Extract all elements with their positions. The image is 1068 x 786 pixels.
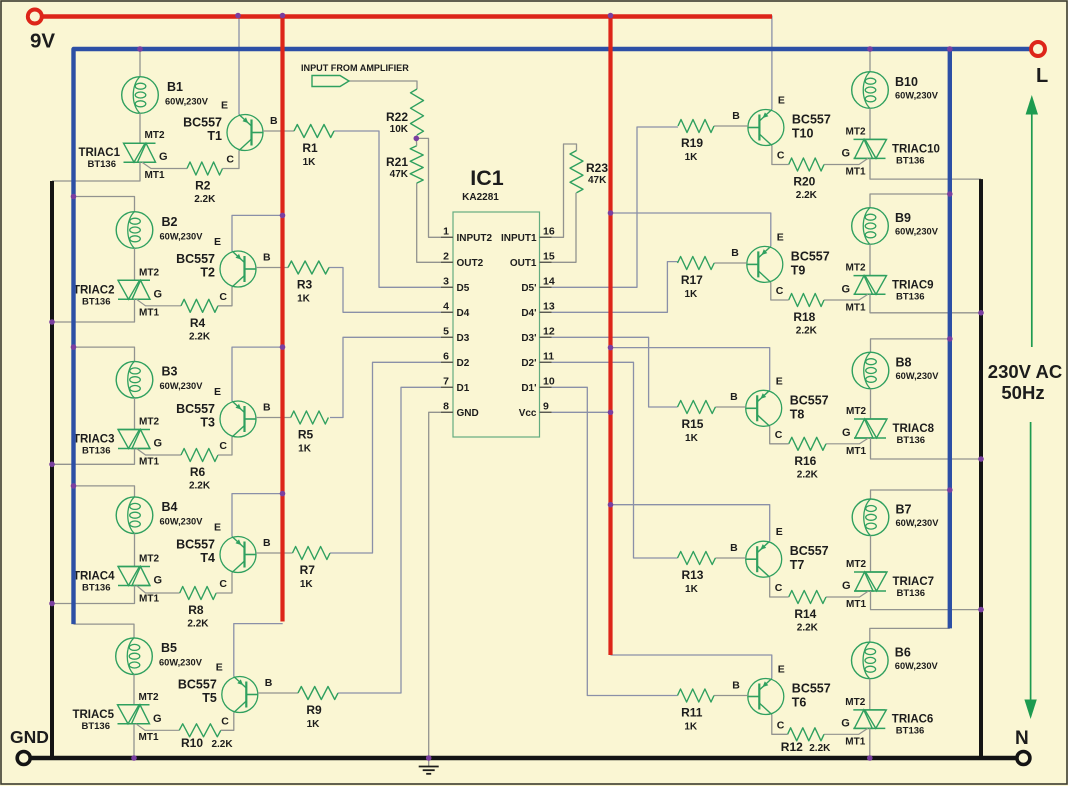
wire T4 collector to R8 [216, 573, 232, 594]
node T1 emitter [235, 13, 241, 19]
svg-text:2.2K: 2.2K [796, 190, 818, 201]
svg-text:2.2K: 2.2K [189, 481, 211, 492]
wire pin 14 (D5p) to R19 [540, 127, 679, 287]
svg-text:T8: T8 [790, 407, 805, 421]
wire T8 collector to R16 [770, 426, 789, 444]
wire T9 collector to R18 [771, 282, 789, 300]
svg-text:60W,230V: 60W,230V [896, 371, 940, 381]
svg-text:R10: R10 [181, 736, 203, 750]
resistor R13 [678, 552, 716, 565]
node T8 emitter junction [608, 345, 614, 351]
wire R21 bottom to pin 2 (OUT2) [417, 183, 453, 262]
svg-text:B7: B7 [896, 502, 912, 516]
node TRIAC8 MT1 junction [978, 456, 984, 462]
resistor R12 [788, 728, 824, 741]
node L rail branch [947, 46, 953, 52]
node TRIAC4 MT1 junction [49, 601, 55, 607]
wire T6 collector to R12 [772, 715, 788, 735]
svg-text:G: G [154, 575, 163, 587]
svg-text:2.2K: 2.2K [797, 623, 819, 634]
svg-text:D1: D1 [457, 383, 470, 394]
svg-text:5: 5 [443, 325, 449, 337]
svg-text:C: C [219, 440, 227, 452]
svg-text:T4: T4 [200, 551, 215, 565]
wire TRIAC7 MT1 to neutral bus [871, 591, 982, 610]
label B8 [896, 356, 940, 382]
label R9 [306, 703, 322, 730]
wire B4 to TRIAC4 MT2 [134, 534, 136, 567]
wire T7 base [715, 557, 745, 559]
svg-text:BT136: BT136 [897, 435, 926, 446]
node 9V rail right branch [608, 13, 614, 19]
node B1 top [137, 46, 143, 52]
transistor T5 [222, 677, 258, 713]
terminal L [1031, 42, 1045, 56]
transistor T9 [747, 246, 783, 282]
resistor R19 [678, 120, 714, 133]
svg-text:1K: 1K [685, 584, 699, 595]
label R3 [297, 278, 313, 305]
label R11 [681, 706, 703, 733]
label MT1 TRIAC1 [145, 170, 165, 181]
svg-text:R17: R17 [681, 273, 703, 287]
svg-text:B: B [732, 110, 740, 122]
resistor R17 [678, 257, 715, 270]
svg-text:10K: 10K [390, 124, 409, 135]
wire gate TRIAC1 to R2 [142, 162, 187, 168]
svg-text:8: 8 [443, 400, 449, 412]
label MT1 TRIAC2 [139, 307, 159, 318]
svg-text:E: E [214, 522, 221, 534]
svg-text:Vcc: Vcc [519, 408, 537, 419]
node B4 top [71, 483, 77, 489]
lamp B7 [852, 499, 889, 536]
terminal 9V [28, 10, 42, 24]
wire B9 to TRIAC9 MT2 [869, 244, 871, 275]
svg-text:MT2: MT2 [846, 126, 866, 137]
pin 4 IC1 [441, 300, 470, 319]
svg-text:D3: D3 [457, 333, 470, 344]
svg-text:BC557: BC557 [792, 113, 831, 127]
label T4 [176, 538, 215, 566]
pin 15 IC1 [510, 250, 555, 269]
svg-text:BC557: BC557 [183, 116, 222, 130]
node T3 emitter junction [280, 344, 286, 350]
wire TRIAC6 MT1 to neutral bus [869, 728, 871, 758]
wire TRIAC9 MT1 to neutral bus [870, 294, 981, 313]
triac TRIAC4 [118, 567, 150, 586]
svg-text:B10: B10 [895, 75, 918, 89]
svg-text:B6: B6 [895, 645, 911, 659]
svg-text:2: 2 [443, 250, 449, 262]
svg-text:1: 1 [443, 225, 449, 237]
svg-text:R9: R9 [306, 703, 322, 717]
pin 6 IC1 [441, 350, 470, 369]
svg-text:MT1: MT1 [846, 166, 866, 177]
svg-text:14: 14 [543, 275, 555, 287]
svg-text:G: G [154, 438, 163, 450]
svg-text:1K: 1K [307, 719, 321, 730]
label B T2 [263, 252, 271, 264]
label R12 [781, 740, 831, 754]
svg-text:MT2: MT2 [845, 697, 865, 708]
wire B7 to L rail [871, 490, 950, 499]
label B10 [895, 75, 939, 101]
label C T3 [219, 440, 227, 452]
label C T5 [221, 715, 229, 727]
svg-text:E: E [777, 231, 784, 243]
svg-text:1K: 1K [300, 579, 314, 590]
wire TRIAC1 MT1 to neutral bus [52, 162, 140, 181]
label T8 [790, 393, 829, 421]
label MT2 TRIAC9 [846, 263, 866, 274]
label G TRIAC9 [841, 283, 850, 295]
node TRIAC5 MT1 junction [131, 755, 137, 761]
svg-text:60W,230V: 60W,230V [165, 97, 209, 107]
svg-text:6: 6 [443, 350, 449, 362]
label TRIAC10 [892, 143, 940, 166]
triac TRIAC10 [854, 139, 887, 158]
svg-text:C: C [777, 719, 785, 731]
node T7 emitter junction [608, 502, 614, 508]
svg-text:T9: T9 [791, 263, 806, 277]
svg-text:GND: GND [10, 727, 49, 747]
wire TRIAC2 MT1 to neutral bus [52, 299, 135, 322]
resistor R20 [789, 158, 824, 171]
svg-text:C: C [776, 285, 784, 297]
wire T6 base [714, 695, 748, 697]
svg-text:2.2K: 2.2K [796, 326, 818, 337]
node 9V rail left branch [280, 13, 286, 19]
pin 12 IC1 [521, 325, 555, 344]
resistor R8 [180, 587, 217, 600]
wire B6 to TRIAC6 MT2 [869, 679, 871, 710]
label G TRIAC5 [153, 713, 162, 725]
pin 5 IC1 [441, 325, 470, 344]
svg-text:D2: D2 [457, 358, 470, 369]
svg-text:BT136: BT136 [82, 583, 111, 594]
triac TRIAC9 [854, 276, 887, 295]
svg-text:BC557: BC557 [178, 678, 217, 692]
label L [1036, 65, 1048, 87]
svg-text:E: E [778, 664, 785, 676]
svg-text:T5: T5 [202, 691, 217, 705]
svg-text:TRIAC3: TRIAC3 [73, 434, 115, 446]
svg-text:G: G [842, 580, 851, 592]
node B10 top [867, 46, 873, 52]
label B4 [160, 500, 204, 527]
connector input tag [312, 76, 349, 87]
wire T2 base [256, 267, 288, 269]
svg-text:BC557: BC557 [790, 393, 829, 407]
label C T9 [776, 285, 784, 297]
wire pin 9 (Vcc) to 9V rail [540, 411, 611, 413]
wire T9 emitter to 9V rail [611, 213, 771, 246]
wire gate TRIAC10 to R20 [824, 158, 868, 164]
wire B5 to L rail [74, 624, 135, 638]
svg-text:C: C [219, 291, 227, 303]
svg-text:BT136: BT136 [896, 155, 925, 166]
lamp B1 [122, 77, 159, 114]
svg-text:MT2: MT2 [139, 267, 159, 278]
label TRIAC2 [73, 284, 115, 307]
svg-text:R7: R7 [300, 563, 316, 577]
resistor R11 [678, 689, 715, 702]
svg-text:R6: R6 [190, 465, 206, 479]
label MT2 TRIAC6 [845, 697, 865, 708]
svg-text:3: 3 [443, 275, 449, 287]
svg-text:D4: D4 [457, 308, 470, 319]
wire pin 10 (D1p) to R11 [540, 387, 678, 695]
svg-text:INPUT1: INPUT1 [501, 233, 537, 244]
label R2 [194, 179, 216, 206]
label G TRIAC6 [841, 717, 850, 729]
svg-text:BC557: BC557 [791, 249, 830, 263]
lamp B2 [116, 212, 153, 249]
wire B9 to L rail [870, 194, 950, 208]
svg-text:2.2K: 2.2K [187, 619, 209, 630]
svg-text:7: 7 [443, 375, 449, 387]
transistor T8 [746, 390, 782, 426]
label T7 [790, 544, 829, 572]
svg-text:TRIAC6: TRIAC6 [892, 713, 934, 725]
label T2 [176, 252, 215, 280]
triac TRIAC1 [124, 143, 156, 162]
svg-text:T6: T6 [792, 696, 807, 710]
wire input tag to R22 [349, 81, 417, 89]
wire T4 emitter to 9V rail [232, 494, 283, 537]
resistor R7 [293, 547, 331, 560]
op-amp IC1 body [453, 212, 540, 437]
label MT1 TRIAC4 [139, 594, 159, 605]
svg-text:MT1: MT1 [139, 594, 159, 605]
node B9 top [947, 191, 953, 197]
svg-text:9V: 9V [30, 30, 55, 53]
svg-text:R21: R21 [386, 155, 408, 169]
resistor R23 [570, 151, 583, 193]
wire pin 12 (D3p) to R15 [540, 337, 678, 407]
svg-text:BT136: BT136 [81, 721, 110, 732]
resistor R1 [294, 125, 334, 138]
resistor R10 [179, 724, 221, 737]
node B8 top [947, 336, 953, 342]
svg-text:B: B [263, 402, 271, 414]
wire B1 to L rail [139, 49, 141, 77]
svg-text:R8: R8 [188, 603, 204, 617]
label B T7 [730, 542, 738, 554]
svg-text:1K: 1K [684, 722, 698, 733]
label MT2 TRIAC4 [139, 554, 159, 565]
pin 11 IC1 [521, 350, 554, 369]
svg-text:MT2: MT2 [846, 559, 866, 570]
svg-text:10: 10 [543, 375, 555, 387]
svg-text:B: B [265, 677, 273, 689]
node T4 emitter junction [280, 491, 286, 497]
svg-text:G: G [153, 713, 162, 725]
svg-text:13: 13 [543, 300, 555, 312]
label B T9 [731, 247, 739, 259]
node B7 top [947, 487, 953, 493]
svg-text:B4: B4 [162, 500, 178, 514]
pin 7 IC1 [441, 375, 470, 394]
svg-text:GND: GND [457, 408, 479, 419]
wire gate TRIAC7 to R14 [826, 591, 869, 597]
svg-text:2.2K: 2.2K [189, 331, 211, 342]
pin 9 IC1 [519, 400, 552, 419]
label R1 [302, 141, 318, 168]
svg-text:B: B [270, 115, 278, 127]
label 230V AC 50Hz [988, 361, 1062, 403]
wire T2 collector to R4 [218, 287, 232, 306]
svg-text:B9: B9 [895, 211, 911, 225]
triac TRIAC8 [854, 419, 887, 438]
wire B2 to TRIAC2 MT2 [134, 248, 136, 280]
svg-text:B: B [730, 542, 738, 554]
label MT2 TRIAC1 [145, 130, 165, 141]
label C T6 [777, 719, 785, 731]
svg-text:TRIAC4: TRIAC4 [73, 571, 115, 583]
svg-text:D5: D5 [457, 283, 470, 294]
resistor R16 [789, 437, 826, 450]
svg-text:1K: 1K [684, 289, 698, 300]
svg-text:INPUT2: INPUT2 [457, 233, 493, 244]
wire B7 to TRIAC7 MT2 [870, 536, 872, 572]
label T6 [792, 682, 831, 710]
label C T4 [219, 578, 227, 590]
svg-text:MT1: MT1 [846, 302, 866, 313]
svg-text:C: C [226, 154, 234, 166]
resistor R15 [678, 401, 716, 414]
label T3 [176, 402, 215, 430]
label MT1 TRIAC3 [139, 457, 159, 468]
node GND wire junction [426, 755, 432, 761]
svg-text:G: G [842, 427, 851, 439]
pin 3 IC1 [441, 275, 470, 294]
label INPUT FROM AMPLIFIER [301, 63, 409, 73]
wire gate TRIAC6 to R12 [824, 728, 868, 734]
wire T3 base [256, 417, 291, 419]
label MT1 TRIAC7 [846, 599, 866, 610]
pin 13 IC1 [521, 300, 555, 319]
svg-text:BT136: BT136 [896, 725, 925, 736]
svg-text:E: E [214, 386, 221, 398]
svg-text:C: C [775, 429, 783, 441]
svg-text:D4': D4' [521, 308, 536, 319]
svg-text:47K: 47K [390, 169, 409, 180]
resistor R2 [187, 162, 223, 175]
svg-text:MT1: MT1 [145, 170, 165, 181]
label R14 [794, 607, 818, 634]
triac TRIAC3 [118, 430, 150, 449]
label R10 [181, 736, 233, 750]
node Vcc pin 9 [608, 410, 614, 416]
label B T1 [270, 115, 278, 127]
wire T8 base [715, 406, 745, 408]
svg-text:60W,230V: 60W,230V [159, 658, 203, 668]
wire R22-R21 junction to pin 1 (INPUT2) [416, 138, 453, 237]
wire T5 base [258, 692, 298, 694]
transistor T10 [748, 110, 784, 146]
wire B3 to TRIAC3 MT2 [134, 398, 136, 430]
svg-text:BT136: BT136 [82, 296, 111, 307]
svg-text:B: B [263, 252, 271, 264]
label B1 [165, 80, 209, 107]
wire B5 to TRIAC5 MT2 [133, 675, 135, 705]
svg-text:T3: T3 [200, 416, 215, 430]
label E T3 [214, 386, 221, 398]
lamp B4 [116, 497, 153, 534]
svg-text:B: B [730, 391, 738, 403]
label TRIAC9 [892, 279, 934, 302]
svg-text:60W,230V: 60W,230V [160, 517, 204, 527]
svg-text:11: 11 [543, 350, 554, 362]
svg-text:C: C [777, 150, 785, 162]
lamp B10 [852, 72, 889, 109]
svg-text:60W,230V: 60W,230V [895, 91, 939, 101]
svg-text:B: B [732, 680, 740, 692]
label R19 [681, 136, 703, 163]
resistor R6 [181, 449, 218, 462]
wire B10 to L rail [869, 49, 871, 72]
svg-text:R5: R5 [298, 428, 314, 442]
wire gate TRIAC9 to R18 [824, 294, 868, 300]
svg-text:B1: B1 [167, 80, 183, 94]
svg-text:2.2K: 2.2K [194, 194, 216, 205]
label E T8 [776, 375, 783, 387]
label E T5 [216, 662, 223, 674]
wire gate TRIAC2 to R4 [137, 299, 182, 306]
wire R23 bottom to pin 15 (OUT1) [540, 193, 577, 262]
svg-text:MT2: MT2 [139, 554, 159, 565]
label TRIAC5 [72, 709, 114, 732]
wire gate TRIAC8 to R16 [826, 438, 869, 444]
label MT2 TRIAC5 [139, 692, 159, 703]
label R16 [794, 454, 818, 481]
label R15 [681, 417, 703, 444]
svg-text:1K: 1K [298, 444, 312, 455]
svg-text:G: G [154, 288, 163, 300]
wire T7 collector to R14 [770, 577, 789, 597]
label E T9 [777, 231, 784, 243]
svg-text:MT1: MT1 [846, 599, 866, 610]
transistor T4 [220, 537, 256, 573]
svg-text:L: L [1036, 65, 1048, 87]
label R21 [386, 155, 409, 180]
svg-text:15: 15 [543, 250, 555, 262]
svg-text:BT136: BT136 [87, 159, 116, 170]
wire TRIAC8 MT1 to neutral bus [871, 438, 982, 459]
label MT2 TRIAC8 [846, 406, 866, 417]
svg-text:R4: R4 [190, 316, 206, 330]
label E T1 [221, 100, 228, 112]
svg-text:50Hz: 50Hz [1001, 382, 1044, 403]
svg-text:R12: R12 [781, 740, 803, 754]
label TRIAC3 [73, 434, 115, 457]
svg-text:G: G [841, 283, 850, 295]
svg-text:MT1: MT1 [139, 457, 159, 468]
wire pin 8 (GND) to ground bus [429, 412, 453, 758]
svg-text:60W,230V: 60W,230V [160, 381, 204, 391]
svg-text:R15: R15 [681, 417, 703, 431]
label G TRIAC2 [154, 288, 163, 300]
label B T8 [730, 391, 738, 403]
node TRIAC2 MT1 junction [49, 319, 55, 325]
label MT1 TRIAC6 [845, 736, 865, 747]
label R6 [189, 465, 211, 492]
label E T6 [778, 664, 785, 676]
label B9 [895, 211, 939, 237]
svg-text:B: B [263, 537, 271, 549]
